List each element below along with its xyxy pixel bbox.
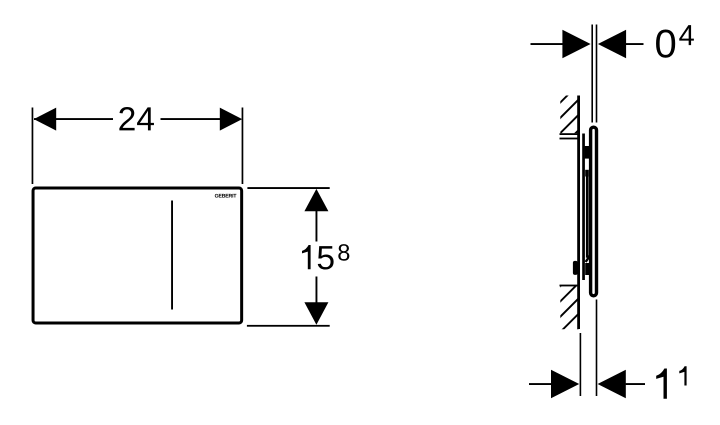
dimension text 0 <box>656 29 675 57</box>
bottom dimension line left segment <box>529 383 551 385</box>
mounting frame profile line B <box>586 176 589 258</box>
dimension line 15.8 upper segment <box>316 211 318 242</box>
dimension superscript 1 drawn as path <box>679 366 686 385</box>
dimension line 15.8 lower segment <box>316 277 318 303</box>
top extension line left (dim 0.4) <box>591 25 593 123</box>
arrowhead up of dim 15.8 <box>304 189 328 211</box>
top dimension arrow right-pointing <box>562 30 590 59</box>
wall opening bottom edge line <box>560 285 579 287</box>
dimension superscript 8 <box>338 244 349 261</box>
wall surface line <box>577 96 580 330</box>
dimension superscript 4 <box>679 25 694 45</box>
arrowhead down of dim 15.8 <box>304 302 328 324</box>
flush plate side view bar <box>591 127 597 296</box>
bottom extension line right (dim 1.1) <box>596 300 598 397</box>
GEBERIT logo text <box>215 194 237 198</box>
mounting frame profile line A <box>582 134 585 281</box>
dimension text 1 drawn as path <box>656 369 667 399</box>
extension line bottom (height dim) <box>247 325 330 327</box>
wall hatch <box>556 65 583 352</box>
top extension line right (dim 0.4) <box>596 25 598 123</box>
top dimension arrow left-pointing <box>598 30 626 59</box>
bottom dimension arrow left-pointing <box>598 370 626 399</box>
bottom dimension line right segment <box>626 383 645 385</box>
arrowhead right of dim 24 <box>220 108 242 131</box>
small fastener block <box>585 170 589 177</box>
extension line left (width dim) <box>32 108 34 185</box>
wall opening top edge line 1 <box>560 133 579 135</box>
flush plate front view <box>33 188 242 323</box>
bottom mounting bracket <box>585 263 590 275</box>
anchor bump in wall <box>573 261 578 275</box>
extension line top (height dim) <box>247 187 329 189</box>
top dimension line right segment <box>626 43 644 45</box>
wall opening top edge line 2 <box>560 138 579 140</box>
bottom dimension arrow right-pointing <box>551 370 579 399</box>
bottom extension line left (dim 1.1) <box>580 333 582 396</box>
dimension text 15: digit 1 drawn as path <box>302 245 311 269</box>
dimension text 24 <box>119 107 154 130</box>
extension line right (width dim) <box>242 108 244 185</box>
dimension line 24 right segment <box>161 118 221 120</box>
slanted latch piece <box>586 256 590 262</box>
top mounting bracket <box>585 146 591 159</box>
button slit line <box>171 201 173 310</box>
arrowhead left of dim 24 <box>34 108 56 131</box>
dimension text 15: digit 5 <box>318 246 334 269</box>
top dimension line left segment <box>531 43 564 45</box>
dimension line 24 left segment <box>34 118 113 120</box>
